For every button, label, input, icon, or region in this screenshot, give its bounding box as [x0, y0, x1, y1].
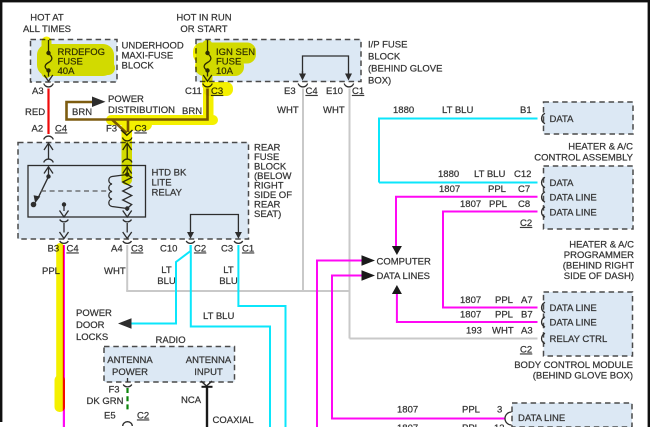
svg-text:C2: C2: [137, 411, 149, 422]
svg-text:DATA LINE: DATA LINE: [518, 413, 565, 424]
svg-text:BLU: BLU: [157, 276, 176, 287]
wire DK GRN: [126, 388, 128, 411]
svg-text:B1: B1: [520, 105, 532, 116]
arrow right to COMPUTER: [362, 255, 376, 265]
wire LT BLU from C10/C2 to power door locks: [130, 245, 191, 324]
svg-text:C8: C8: [518, 199, 530, 210]
svg-text:A3: A3: [32, 86, 44, 97]
i/p fuse block box: [196, 40, 361, 82]
svg-text:DATA LINES: DATA LINES: [377, 271, 431, 282]
svg-text:CONTROL ASSEMBLY: CONTROL ASSEMBLY: [534, 153, 633, 164]
svg-text:1880: 1880: [393, 105, 414, 116]
svg-text:A3: A3: [521, 326, 533, 337]
wire A2 entry into rear fuse block: [44, 143, 53, 175]
fuse IGN SEN 10A: [203, 40, 212, 81]
arrow down into computer data lines: [392, 246, 402, 255]
wire LT BLU 1880 to heater control DATA: [379, 119, 538, 183]
svg-text:DATA LINE: DATA LINE: [550, 303, 597, 314]
svg-text:1807: 1807: [397, 405, 418, 416]
bottom data line box: [512, 403, 632, 427]
svg-text:PPL: PPL: [489, 199, 507, 210]
svg-text:C2: C2: [194, 244, 206, 255]
svg-text:PPL: PPL: [495, 295, 513, 306]
connector arc C3/C1: [234, 241, 243, 243]
svg-text:DK GRN: DK GRN: [87, 396, 124, 407]
svg-text:C1: C1: [352, 86, 364, 97]
svg-text:POWER: POWER: [108, 94, 144, 105]
svg-text:RED: RED: [25, 107, 45, 118]
radio box: [104, 347, 235, 383]
wire A4 exit from rear fuse block: [123, 220, 132, 244]
svg-text:NCA: NCA: [181, 395, 202, 406]
svg-text:(BEHIND GLOVE BOX): (BEHIND GLOVE BOX): [533, 371, 633, 382]
connector ( at DATA LINE C8: [542, 207, 545, 217]
svg-text:ANTENNA: ANTENNA: [107, 355, 153, 366]
wire jumper inside I/P fuse block: [303, 56, 349, 74]
wire LT BLU from C3/C1 down to bottom: [238, 245, 285, 427]
svg-text:BODY CONTROL MODULE: BODY CONTROL MODULE: [514, 360, 633, 371]
wire RED from A3 to A2: [47, 89, 49, 135]
connector ( at DATA LINE 3: [505, 412, 511, 425]
svg-text:ANTENNA: ANTENNA: [186, 355, 232, 366]
svg-text:WHT: WHT: [492, 326, 514, 337]
wire BRN from IGN SEN fuse: [67, 89, 208, 134]
highlight marker over IGN SEN fuse: [193, 40, 256, 96]
wire B3 exit from rear fuse block: [60, 220, 69, 244]
svg-text:DOOR: DOOR: [76, 320, 105, 331]
wire LT BLU 1880 to programmer DATA C12: [379, 182, 538, 184]
svg-text:F3: F3: [106, 124, 117, 135]
underhood maxi-fuse block box: [31, 40, 118, 83]
svg-text:C3: C3: [131, 244, 143, 255]
svg-text:LT BLU: LT BLU: [474, 169, 505, 180]
svg-text:A4: A4: [111, 244, 123, 255]
svg-text:BLU: BLU: [219, 276, 238, 287]
body control module box: [544, 292, 633, 356]
wire PPL to data lines (from left): [332, 276, 505, 419]
svg-text:B7: B7: [521, 310, 533, 321]
connector arc below IGN SEN fuse: [203, 84, 212, 87]
svg-text:13: 13: [494, 423, 505, 427]
svg-text:LT: LT: [223, 265, 234, 276]
svg-text:C11: C11: [185, 86, 202, 97]
svg-text:HEATER & A/C: HEATER & A/C: [569, 240, 634, 251]
arrow to POWER DISTRIBUTION: [92, 97, 106, 108]
connector ( at DATA LINE A7: [542, 302, 545, 312]
connector arc F3/C3: [123, 138, 132, 141]
connector arc E3/C4: [298, 84, 307, 87]
connector arc F3 radio: [123, 385, 132, 387]
svg-text:COAXIAL: COAXIAL: [213, 415, 254, 426]
svg-text:F3: F3: [109, 385, 120, 396]
svg-text:C4: C4: [55, 124, 67, 135]
connector ( at DATA LINE B7: [542, 317, 545, 327]
wire PPL 1807 C7: [396, 197, 538, 246]
svg-text:C4: C4: [67, 244, 79, 255]
svg-text:3: 3: [497, 405, 502, 416]
svg-text:LT BLU: LT BLU: [203, 311, 234, 322]
svg-text:INPUT: INPUT: [194, 367, 223, 378]
wire jumper inside rear fuse block C10-C3: [191, 215, 239, 234]
image frame: [0, 0, 650, 2]
wire LT BLU from C10/C2 down to bottom: [191, 245, 270, 427]
highlight marker along PPL wire from B3/C4: [55, 243, 66, 412]
arrow up from below into data lines: [392, 285, 402, 294]
svg-text:DATA: DATA: [550, 114, 575, 125]
svg-text:1807: 1807: [460, 310, 481, 321]
antenna coax connector: [201, 381, 212, 386]
connector arc E10/C1: [344, 84, 353, 87]
svg-text:BOX): BOX): [368, 76, 391, 87]
connector ( at DATA LINE C7: [542, 192, 545, 202]
svg-text:C7: C7: [518, 184, 530, 195]
svg-text:RELAY: RELAY: [152, 188, 183, 199]
svg-text:C10: C10: [160, 244, 177, 255]
wire COAXIAL: [206, 387, 208, 427]
svg-text:C12: C12: [514, 169, 531, 180]
svg-text:BLOCK: BLOCK: [368, 52, 401, 63]
svg-text:BLOCK: BLOCK: [122, 61, 155, 72]
arrow to POWER DOOR LOCKS: [118, 318, 132, 329]
svg-text:DATA LINE: DATA LINE: [550, 208, 597, 219]
svg-text:A7: A7: [521, 295, 533, 306]
svg-text:ALL TIMES: ALL TIMES: [23, 24, 71, 35]
wire PPL to computer data lines (from left): [317, 261, 362, 428]
svg-text:PPL: PPL: [462, 405, 480, 416]
svg-text:RADIO: RADIO: [156, 335, 186, 346]
svg-text:WHT: WHT: [277, 105, 299, 116]
svg-text:PPL: PPL: [462, 423, 480, 427]
svg-text:COMPUTER: COMPUTER: [377, 257, 432, 268]
connector arc below RRDEFOG fuse: [44, 84, 53, 87]
svg-text:1807: 1807: [439, 184, 460, 195]
svg-text:E10: E10: [326, 86, 343, 97]
connector ( at DATA B1: [542, 113, 545, 123]
svg-text:DISTRIBUTION: DISTRIBUTION: [108, 105, 175, 116]
connector chevron F3: [121, 130, 133, 135]
svg-text:C2: C2: [520, 218, 532, 229]
svg-text:LT: LT: [161, 265, 172, 276]
svg-text:BRN: BRN: [72, 107, 92, 118]
svg-text:C3: C3: [221, 244, 233, 255]
svg-text:PPL: PPL: [488, 184, 506, 195]
connector arc C10/C2: [186, 241, 195, 243]
svg-text:OR START: OR START: [180, 24, 227, 35]
relay box HTD BK LITE RELAY: [28, 166, 146, 218]
svg-text:HOT IN RUN: HOT IN RUN: [176, 13, 231, 24]
connector ( at DATA C12: [542, 177, 545, 187]
fuse RRDEFOG 40A: [44, 40, 53, 81]
relay mechanical link (dashed): [41, 190, 107, 192]
highlight marker along BRN wire and relay coil feed: [106, 88, 218, 185]
svg-text:(BEHIND RIGHT: (BEHIND RIGHT: [563, 261, 634, 272]
wire F3 entry into rear fuse block: [123, 143, 132, 173]
wire PPL from B3/C4 (yellow highlighted shows red): [63, 245, 65, 427]
svg-text:1807: 1807: [460, 199, 481, 210]
svg-text:LOCKS: LOCKS: [76, 332, 108, 343]
heater a/c programmer box: [544, 166, 634, 229]
svg-text:SEAT): SEAT): [254, 209, 281, 220]
svg-text:C1: C1: [242, 244, 254, 255]
relay coil with resistor: [109, 174, 132, 218]
svg-text:193: 193: [466, 326, 482, 337]
svg-text:LT BLU: LT BLU: [442, 105, 473, 116]
svg-text:A2: A2: [32, 124, 44, 135]
connector arc E5/C2: [123, 422, 133, 426]
svg-text:PROGRAMMER: PROGRAMMER: [564, 250, 634, 261]
connector arc A2/C4: [44, 136, 53, 139]
svg-text:HOT AT: HOT AT: [30, 13, 64, 24]
svg-text:E3: E3: [284, 86, 296, 97]
svg-text:DATA LINE: DATA LINE: [550, 193, 597, 204]
wire PPL 1807 C8: [443, 212, 538, 308]
svg-text:HEATER & A/C: HEATER & A/C: [568, 142, 633, 153]
svg-text:RELAY CTRL: RELAY CTRL: [550, 334, 608, 345]
svg-text:(BEHIND GLOVE: (BEHIND GLOVE: [368, 64, 442, 75]
svg-text:E5: E5: [104, 411, 116, 422]
heater a/c control assembly box: [544, 102, 634, 134]
svg-text:I/P FUSE: I/P FUSE: [368, 40, 407, 51]
highlight marker over RRDEFOG fuse: [37, 37, 115, 79]
wire PPL from up arrow to B7: [397, 294, 538, 322]
relay switch output contact: [62, 202, 66, 206]
svg-text:1880: 1880: [438, 169, 459, 180]
svg-text:PPL: PPL: [495, 310, 513, 321]
svg-text:POWER: POWER: [112, 367, 148, 378]
wire WHT net 193: [126, 89, 537, 339]
svg-text:1807: 1807: [397, 423, 418, 427]
svg-text:POWER: POWER: [76, 308, 112, 319]
svg-text:WHT: WHT: [104, 266, 126, 277]
connector ( at RELAY CTRL A3: [542, 333, 545, 343]
rear fuse block box: [18, 143, 249, 240]
arrow right to DATA LINES: [362, 270, 376, 281]
svg-text:DATA: DATA: [550, 178, 575, 189]
svg-text:DATA LINE: DATA LINE: [550, 318, 597, 329]
svg-text:C4: C4: [306, 86, 318, 97]
svg-text:C2: C2: [520, 345, 532, 356]
svg-text:WHT: WHT: [323, 105, 345, 116]
relay switch: [46, 174, 50, 178]
svg-text:SIDE OF DASH): SIDE OF DASH): [564, 271, 634, 282]
svg-text:1807: 1807: [460, 295, 481, 306]
